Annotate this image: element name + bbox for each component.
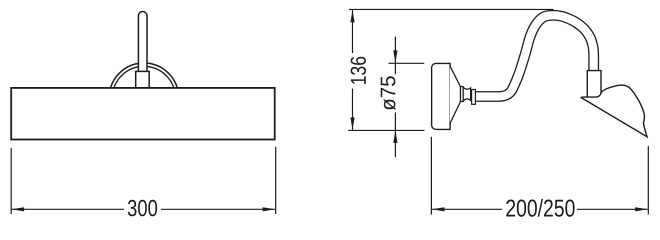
dimension 136: dimension line upper segment: [352, 10, 354, 53]
dimension 136: top extension line: [349, 8, 554, 10]
dimension 200/250: dimension line right segment: [577, 208, 648, 210]
side view: lamp socket outline: [587, 71, 601, 98]
dimension 300: dimension line left segment: [12, 208, 124, 210]
dimension 300: right arrowhead: [263, 207, 276, 211]
dimension 136: top arrowhead: [350, 10, 354, 23]
dimension diameter75: top arrowhead: [393, 50, 397, 63]
dimension diameter75: bottom arrowhead: [393, 130, 397, 143]
side view: spool joint flange right: [472, 90, 476, 105]
dimension diameter75: label: [381, 76, 396, 110]
dimension diameter75: bottom tail line: [394, 130, 396, 157]
dimension 300: left extension line: [10, 148, 12, 214]
side view: wall plate: [432, 63, 451, 129]
front view: shade rectangle: [11, 88, 275, 140]
side view: lamp socket fill: [587, 71, 601, 98]
front view: stem base block: [136, 71, 150, 88]
dimension 300: left arrowhead: [12, 207, 25, 211]
side view: spool joint flange left: [461, 87, 464, 102]
dimension 200/250: label: [506, 199, 574, 217]
dimension 200/250: right extension line: [647, 146, 649, 215]
dimension 300: dimension line right segment: [161, 208, 275, 210]
dimension 200/250: dimension line left segment: [432, 208, 502, 210]
side view: spool joint concave: [463, 87, 470, 101]
dimension diameter75: top tail line: [394, 37, 396, 63]
dimension 300: label: [128, 200, 157, 217]
dimension 300: right extension line: [275, 147, 277, 214]
dimension diameter75: mid lower segment: [394, 113, 396, 131]
dimension diameter75: top extension line: [389, 62, 425, 64]
dimension 136: bottom arrowhead: [350, 117, 354, 129]
side view: gooseneck tube inner white: [476, 15, 594, 96]
front view: wall mount ring inner: [112, 66, 175, 129]
side view: shade: [581, 85, 647, 137]
dimension 136: label: [351, 57, 366, 84]
front view: wall mount ring outer: [109, 63, 178, 132]
dimension 200/250: right arrowhead: [635, 207, 648, 211]
dimension diameter75: mid upper segment: [394, 63, 396, 74]
side view: gooseneck tube outer: [476, 15, 594, 96]
dimension 200/250: left arrowhead: [432, 207, 445, 211]
side view: cone: [450, 66, 461, 124]
dimension 136: bottom shared extension line: [348, 129, 424, 131]
dimension 136: dimension line lower segment: [352, 89, 354, 130]
front view: stem: [138, 11, 147, 75]
dimension 200/250: left extension line: [430, 137, 432, 215]
